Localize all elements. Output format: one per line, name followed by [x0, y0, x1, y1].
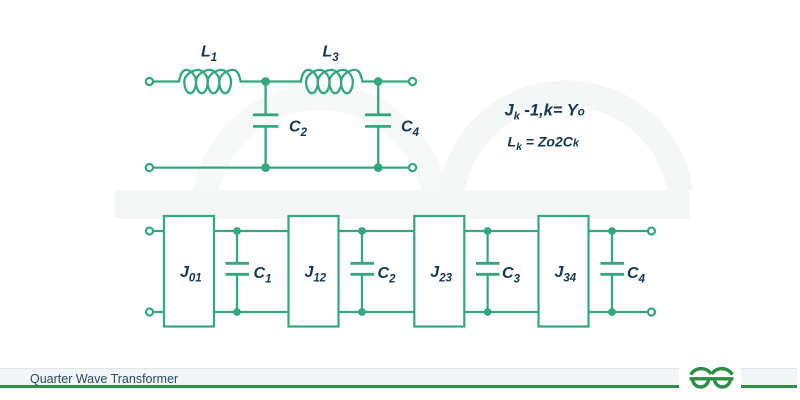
footer green rule [0, 385, 797, 388]
capacitor C4 shunt [600, 231, 624, 312]
terminal input bottom [146, 164, 153, 171]
terminal bottom circuit output bottom [648, 309, 655, 316]
capacitor C2 [253, 82, 278, 168]
terminal output top [409, 78, 416, 85]
footer band [0, 369, 797, 386]
node C3 top [484, 227, 492, 235]
wire top output [362, 80, 410, 82]
wire bottom circuit bottom rail [153, 311, 648, 313]
terminal bottom circuit output top [648, 228, 655, 235]
node C4 top [608, 227, 616, 235]
node C2 bottom [358, 308, 366, 316]
inductor L3 [301, 70, 363, 93]
box J34 [539, 216, 589, 327]
wire top input [153, 80, 180, 82]
terminal bottom circuit input bottom [146, 309, 153, 316]
box J12 [289, 216, 339, 327]
node C2 top junction [261, 77, 270, 86]
wire bottom rail [153, 166, 409, 168]
node C1 top [233, 227, 241, 235]
node C2 bottom junction [261, 163, 270, 172]
terminal input top [146, 78, 153, 85]
svg-text:Quarter Wave Transformer: Quarter Wave Transformer [30, 372, 178, 386]
box J01 [164, 216, 214, 327]
logo GeeksforGeeks [690, 369, 734, 387]
capacitor C3 shunt [476, 231, 500, 312]
wire bottom circuit top rail [153, 230, 648, 232]
terminal output bottom [409, 164, 416, 171]
node C2 top [358, 227, 366, 235]
wire between L1 and L3 [240, 80, 303, 82]
node C4 bottom junction [374, 163, 383, 172]
node C3 bottom [484, 308, 492, 316]
node C4 top junction [374, 77, 383, 86]
node C1 bottom [233, 308, 241, 316]
capacitor C1 shunt [225, 231, 249, 312]
capacitor C2 shunt [350, 231, 374, 312]
capacitor C4 [365, 82, 391, 168]
inductor L1 [179, 70, 241, 93]
terminal bottom circuit input top [146, 228, 153, 235]
box J23 [414, 216, 464, 327]
node C4 bottom [608, 308, 616, 316]
